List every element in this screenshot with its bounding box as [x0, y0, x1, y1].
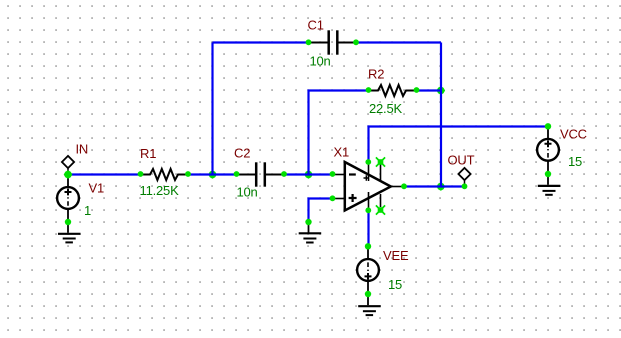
svg-text:R2: R2: [368, 67, 384, 82]
label X1: [334, 145, 350, 160]
terminal dot OUT port: [462, 183, 468, 189]
port OUT diamond: [458, 168, 470, 186]
svg-text:15: 15: [388, 277, 402, 292]
svg-text:IN: IN: [76, 142, 89, 157]
ground below VEE: [358, 294, 381, 315]
port IN diamond: [62, 156, 74, 173]
terminal dot R1 right: [185, 171, 191, 177]
terminal dot R2 right: [414, 87, 420, 93]
svg-text:X1: X1: [334, 145, 350, 160]
wire R2 left stub: [309, 91, 369, 175]
terminal dot opamp non-inverting input: [330, 195, 336, 201]
value 10n (C1): [310, 54, 331, 69]
value 1 (V1): [84, 203, 91, 218]
terminal dot ground stub at plus input: [305, 219, 311, 225]
svg-text:22.5K: 22.5K: [369, 101, 403, 116]
label R1: [140, 146, 156, 161]
terminal dot VEE top: [365, 243, 371, 249]
value 11.25K: [140, 183, 180, 198]
terminal dot VEE bottom: [365, 291, 371, 297]
label IN: [76, 142, 89, 157]
resistor R2: [369, 85, 415, 96]
value 22.5K: [369, 101, 403, 116]
svg-text:10n: 10n: [310, 54, 331, 69]
voltage source VEE: [357, 247, 379, 293]
wire opamp V- pin to VEE: [367, 211, 369, 247]
node junction at opamp minus / R2-C2 net: [304, 170, 313, 179]
wire R1 to C2: [188, 173, 238, 175]
terminal dot opamp output: [401, 183, 407, 189]
label R2: [368, 67, 384, 82]
svg-text:15: 15: [568, 154, 582, 169]
terminal dot C2 right: [281, 171, 287, 177]
svg-text:C1: C1: [308, 18, 324, 33]
wire C1 right to right rail: [356, 41, 441, 43]
wire input row IN to R1: [68, 173, 141, 175]
wire feedback vertical from node to C1 row: [211, 43, 213, 175]
terminal dot V1 bottom: [65, 219, 71, 225]
wire C1 row left: [213, 41, 309, 43]
node junction output net: [437, 182, 446, 191]
unconnected pin marker bottom (NC cross): [376, 205, 385, 214]
wire C2 to opamp inverting input: [283, 173, 333, 175]
label VEE: [383, 248, 409, 263]
terminal dot C2 left: [234, 171, 240, 177]
wire VCC rail horizontal and down to opamp V+ pin: [369, 127, 549, 163]
ground below VCC: [538, 174, 561, 195]
voltage source VCC: [537, 127, 559, 173]
terminal dot VCC bottom: [545, 171, 551, 177]
value 15 (VCC): [568, 154, 582, 169]
terminal dot R1 left: [138, 171, 144, 177]
ground at opamp plus input: [299, 222, 322, 243]
capacitor C2: [238, 162, 283, 186]
node junction at R1/C2/feedback net: [208, 170, 217, 179]
wire opamp output to OUT: [404, 185, 465, 187]
label C1: [308, 18, 324, 33]
value 10n (C2): [237, 185, 258, 200]
terminal dot VCC top: [545, 123, 551, 129]
terminal dot C1 right: [353, 39, 359, 45]
svg-text:R1: R1: [140, 146, 156, 161]
terminal dot C1 left: [306, 39, 312, 45]
terminal dot R2 left: [366, 87, 372, 93]
wire R2 right to rail: [416, 89, 441, 91]
label OUT: [448, 153, 475, 168]
resistor R1: [141, 169, 187, 180]
terminal dot IN / V1 top: [64, 170, 73, 179]
svg-text:C2: C2: [234, 146, 250, 161]
node junction C1/R2 right feedback net: [437, 86, 446, 95]
svg-text:VCC: VCC: [560, 127, 587, 142]
terminal dot opamp V- pin: [365, 207, 371, 213]
svg-text:V1: V1: [89, 181, 105, 196]
op-amp U X1: [333, 162, 404, 211]
value 15 (VEE): [388, 277, 402, 292]
svg-text:10n: 10n: [237, 185, 258, 200]
terminal dot opamp V+ pin: [365, 159, 371, 165]
terminal dot opamp inverting input: [330, 171, 336, 177]
svg-text:11.25K: 11.25K: [140, 183, 180, 198]
wire right rail vertical C1 to output node: [440, 43, 442, 187]
svg-text:1: 1: [84, 203, 91, 218]
svg-text:OUT: OUT: [448, 153, 475, 168]
wire opamp plus input to ground stub: [309, 199, 333, 223]
label VCC: [560, 127, 587, 142]
label V1: [89, 181, 105, 196]
ground below V1: [58, 222, 81, 242]
capacitor C1: [310, 30, 355, 54]
voltage source V1: [57, 175, 79, 221]
svg-text:VEE: VEE: [383, 248, 409, 263]
unconnected pin marker top (NC cross): [376, 157, 385, 166]
label C2: [234, 146, 250, 161]
